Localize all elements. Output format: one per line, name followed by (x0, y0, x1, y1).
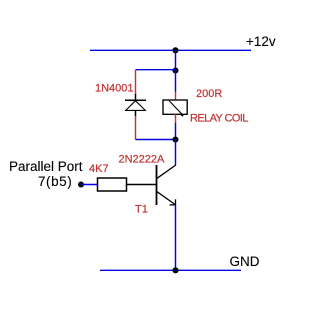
wire GND rail (100, 269, 241, 271)
transistor Q1 2N2222A T1 (127, 165, 176, 205)
svg-text:Parallel Port: Parallel Port (9, 159, 83, 174)
wire middle vertical lower (blue) (175, 123, 177, 140)
diode D1 1N4001 (125, 94, 146, 117)
wire from J1 down to J2 (175, 50, 177, 71)
svg-text:+12v: +12v (246, 34, 276, 49)
wire middle vertical upper (blue) (175, 71, 177, 93)
wire +12v rail (90, 49, 251, 51)
wire diode top lead (red) (135, 70, 137, 95)
wire diode bottom lead (red) (135, 116, 137, 140)
wire emitter to ground (blue) (175, 205, 177, 270)
node J1 junction on +12v rail (172, 47, 178, 53)
svg-text:200R: 200R (196, 88, 222, 100)
wire relay bottom lead (red) (175, 114, 177, 123)
svg-text:7(b5): 7(b5) (38, 174, 72, 189)
svg-text:RELAY COIL: RELAY COIL (190, 113, 248, 125)
node J2 branch junction (172, 67, 178, 73)
resistor R1 4K7 (98, 178, 127, 191)
wire input to resistor (blue) (81, 184, 98, 186)
svg-text:GND: GND (230, 254, 260, 269)
node input terminal dot (78, 181, 84, 187)
node J4 junction on GND rail (172, 267, 178, 273)
wire relay top lead (red) (175, 92, 177, 101)
svg-text:1N4001: 1N4001 (95, 82, 134, 94)
svg-text:2N2222A: 2N2222A (119, 154, 166, 166)
svg-text:T1: T1 (135, 204, 148, 216)
relay coil K1 200R (163, 100, 187, 117)
svg-text:4K7: 4K7 (89, 163, 109, 175)
wire branch top horizontal (136, 69, 176, 71)
node J3 junction below relay (172, 136, 178, 142)
wire collector wire (blue) (175, 140, 177, 166)
wire branch bottom horizontal (136, 139, 176, 141)
